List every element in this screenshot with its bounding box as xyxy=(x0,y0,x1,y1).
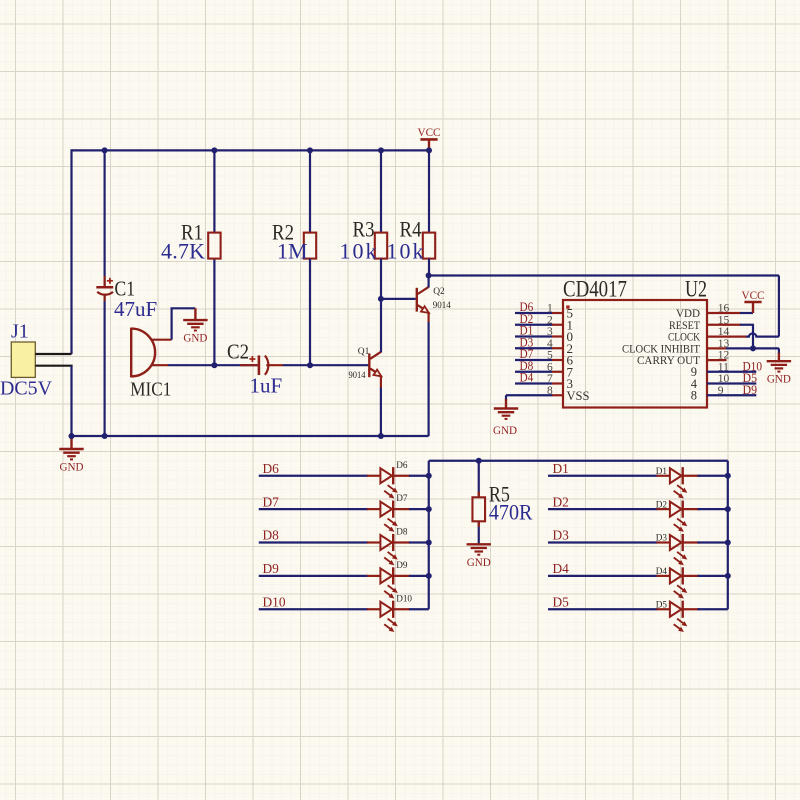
svg-text:MIC1: MIC1 xyxy=(130,378,171,400)
svg-text:10k: 10k xyxy=(387,238,424,263)
svg-text:GND: GND xyxy=(767,372,791,386)
svg-text:D10: D10 xyxy=(263,594,286,609)
svg-text:8: 8 xyxy=(691,389,697,403)
svg-text:D6: D6 xyxy=(263,461,280,476)
svg-text:D5: D5 xyxy=(553,594,570,609)
svg-text:D4: D4 xyxy=(656,566,668,576)
svg-text:D8: D8 xyxy=(396,527,408,537)
svg-text:4.7K: 4.7K xyxy=(161,238,205,263)
svg-text:VCC: VCC xyxy=(418,125,441,139)
svg-text:4: 4 xyxy=(547,338,553,350)
svg-text:D1: D1 xyxy=(656,466,668,476)
svg-text:D7: D7 xyxy=(396,493,408,503)
svg-text:D3: D3 xyxy=(553,528,570,543)
svg-text:CD4017: CD4017 xyxy=(563,277,627,302)
svg-text:1: 1 xyxy=(547,303,553,315)
svg-text:D2: D2 xyxy=(553,494,569,509)
svg-text:D8: D8 xyxy=(263,528,280,543)
svg-text:9014: 9014 xyxy=(433,301,451,311)
svg-text:1M: 1M xyxy=(277,238,308,263)
svg-text:D1: D1 xyxy=(553,461,569,476)
svg-text:GND: GND xyxy=(60,460,84,474)
svg-text:DC5V: DC5V xyxy=(0,378,53,400)
svg-text:D9: D9 xyxy=(263,561,280,576)
svg-text:6: 6 xyxy=(547,361,553,373)
svg-text:2: 2 xyxy=(547,314,553,326)
svg-text:1uF: 1uF xyxy=(250,374,283,398)
svg-text:Q1: Q1 xyxy=(358,347,370,357)
svg-text:GND: GND xyxy=(183,331,207,345)
svg-text:J1: J1 xyxy=(11,321,29,343)
svg-text:10k: 10k xyxy=(340,238,377,263)
svg-text:D5: D5 xyxy=(656,599,668,609)
svg-text:9014: 9014 xyxy=(349,371,366,381)
svg-text:47uF: 47uF xyxy=(114,297,157,321)
svg-text:3: 3 xyxy=(547,326,553,338)
svg-text:D2: D2 xyxy=(656,499,668,509)
svg-text:D4: D4 xyxy=(520,371,534,385)
svg-text:D7: D7 xyxy=(263,494,280,509)
svg-text:D6: D6 xyxy=(396,460,408,470)
svg-text:U2: U2 xyxy=(685,277,707,302)
svg-text:D9: D9 xyxy=(396,560,408,570)
svg-text:VSS: VSS xyxy=(567,389,590,403)
svg-text:Q2: Q2 xyxy=(433,287,445,297)
svg-text:D3: D3 xyxy=(656,533,668,543)
svg-text:C2: C2 xyxy=(227,340,249,364)
svg-text:470R: 470R xyxy=(489,500,533,525)
svg-text:GND: GND xyxy=(493,423,517,437)
svg-text:D9: D9 xyxy=(743,383,758,397)
svg-text:GND: GND xyxy=(467,555,491,569)
svg-text:7: 7 xyxy=(547,373,553,385)
svg-text:VCC: VCC xyxy=(742,288,765,302)
svg-text:D4: D4 xyxy=(553,561,570,576)
svg-text:D10: D10 xyxy=(396,593,412,603)
svg-text:5: 5 xyxy=(547,350,553,362)
